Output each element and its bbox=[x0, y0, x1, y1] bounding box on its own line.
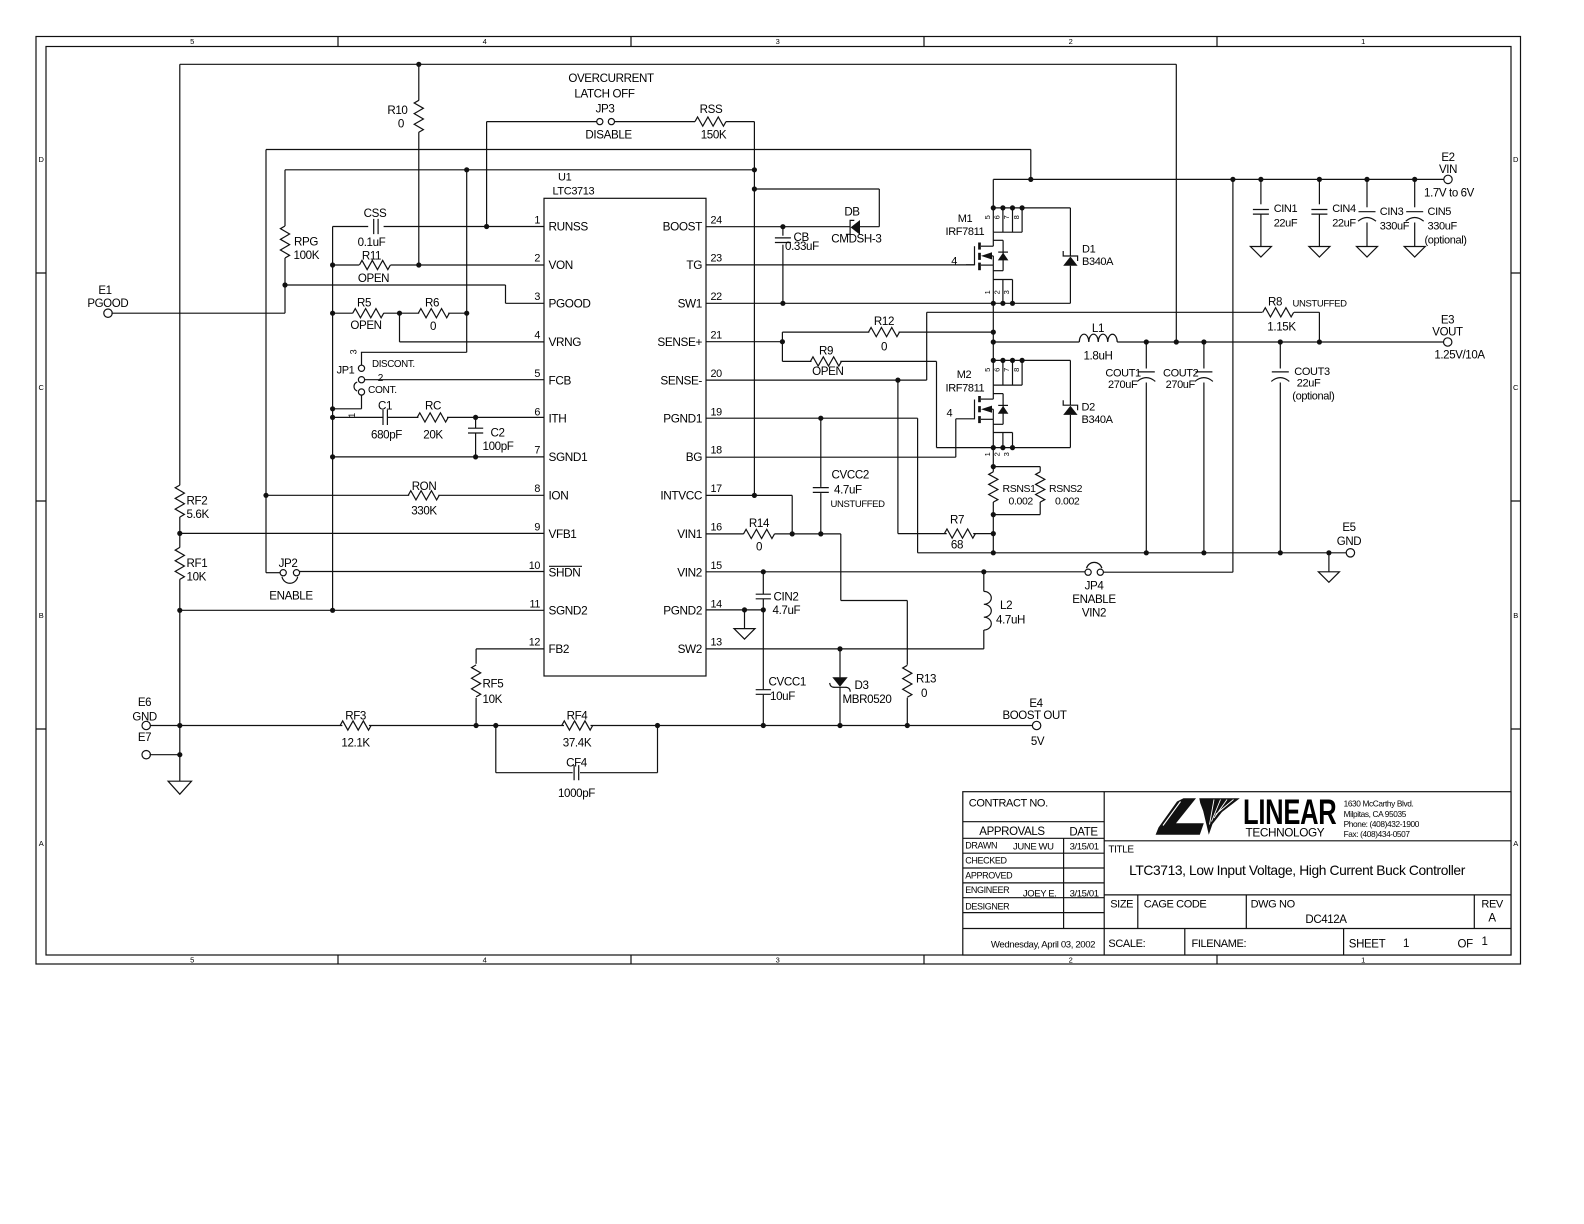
svg-text:CIN2: CIN2 bbox=[774, 590, 799, 603]
wire ION-JP2 column bbox=[265, 150, 267, 573]
svg-text:680pF: 680pF bbox=[371, 429, 402, 442]
ground symbol E5 bbox=[1328, 553, 1330, 572]
svg-text:R5: R5 bbox=[357, 297, 371, 310]
title block bbox=[963, 792, 1511, 955]
svg-text:4: 4 bbox=[947, 408, 953, 420]
svg-text:3: 3 bbox=[1002, 452, 1011, 456]
svg-text:Milpitas, CA 95035: Milpitas, CA 95035 bbox=[1344, 809, 1407, 819]
svg-text:3/15/01: 3/15/01 bbox=[1070, 888, 1099, 899]
svg-text:R7: R7 bbox=[950, 514, 964, 527]
svg-text:13: 13 bbox=[711, 637, 723, 649]
svg-text:OPEN: OPEN bbox=[812, 365, 843, 378]
svg-text:JP1: JP1 bbox=[337, 365, 355, 377]
wire INTVCC to R6-JP1 column bbox=[466, 170, 468, 313]
svg-text:0.1uF: 0.1uF bbox=[358, 236, 386, 249]
svg-text:CVCC1: CVCC1 bbox=[769, 676, 806, 689]
svg-text:5: 5 bbox=[534, 368, 540, 380]
resistor R8 UNSTUFFED bbox=[927, 311, 1263, 313]
svg-text:4.7uF: 4.7uF bbox=[773, 604, 801, 617]
svg-text:270uF: 270uF bbox=[1108, 379, 1138, 391]
svg-text:TG: TG bbox=[686, 258, 702, 272]
svg-text:L1: L1 bbox=[1092, 322, 1104, 335]
svg-text:1: 1 bbox=[983, 452, 992, 456]
wire SW1 pin22 rail bbox=[706, 302, 1070, 304]
svg-text:8: 8 bbox=[1012, 368, 1021, 372]
wire VRNG link bbox=[399, 313, 401, 342]
svg-text:18: 18 bbox=[711, 445, 723, 457]
svg-text:0.002: 0.002 bbox=[1055, 495, 1080, 507]
svg-text:20: 20 bbox=[711, 368, 723, 380]
svg-text:(optional): (optional) bbox=[1292, 390, 1334, 402]
resistor RF2 bbox=[175, 485, 184, 517]
svg-text:0: 0 bbox=[398, 118, 404, 131]
svg-text:6: 6 bbox=[993, 368, 1002, 372]
node E3 VOUT bbox=[1444, 338, 1452, 346]
capacitor CVCC1 10uF bbox=[762, 610, 764, 689]
svg-text:JP4: JP4 bbox=[1085, 579, 1105, 592]
svg-text:330K: 330K bbox=[411, 505, 437, 518]
svg-text:OPEN: OPEN bbox=[350, 319, 381, 332]
svg-text:2: 2 bbox=[1069, 37, 1073, 46]
svg-text:RSS: RSS bbox=[700, 103, 723, 116]
svg-text:VIN: VIN bbox=[1439, 164, 1457, 176]
capacitor CIN2 4.7uF bbox=[762, 572, 764, 594]
svg-text:UNSTUFFED: UNSTUFFED bbox=[831, 499, 886, 510]
capacitor CB bbox=[782, 227, 784, 236]
svg-text:4.7uH: 4.7uH bbox=[996, 614, 1025, 627]
svg-text:8: 8 bbox=[1012, 215, 1021, 219]
svg-text:SHEET: SHEET bbox=[1349, 938, 1386, 950]
wire JP1 pin3 link bbox=[466, 313, 468, 352]
svg-text:SW2: SW2 bbox=[678, 642, 702, 656]
wire VIN2 pin15 line bbox=[706, 571, 1085, 573]
transistor M1 body bbox=[992, 232, 994, 246]
inductor L2 4.7uH bbox=[983, 572, 985, 592]
resistor R12 bbox=[782, 331, 869, 333]
wire RSNS bottom column bbox=[992, 515, 994, 553]
svg-text:0: 0 bbox=[430, 320, 436, 333]
svg-text:1.7V to 6V: 1.7V to 6V bbox=[1424, 188, 1475, 200]
capacitor C1 bbox=[333, 416, 383, 418]
svg-text:RF1: RF1 bbox=[187, 557, 208, 570]
wire JP2 to SHDN pin10 bbox=[299, 571, 544, 573]
wire SW node column bbox=[992, 303, 994, 360]
capacitor CIN1 22uF bbox=[1260, 179, 1262, 204]
svg-text:24: 24 bbox=[711, 214, 723, 226]
svg-text:CONTRACT NO.: CONTRACT NO. bbox=[969, 798, 1048, 810]
svg-text:RF5: RF5 bbox=[483, 677, 504, 690]
wire SW2 pin13 line bbox=[706, 648, 984, 650]
svg-text:UNSTUFFED: UNSTUFFED bbox=[1293, 298, 1348, 309]
svg-text:ITH: ITH bbox=[549, 412, 567, 426]
svg-text:CIN3: CIN3 bbox=[1380, 206, 1404, 218]
svg-text:6: 6 bbox=[993, 215, 1002, 219]
wire INTVCC jog to R13 bbox=[840, 534, 842, 601]
svg-text:R14: R14 bbox=[749, 517, 770, 530]
diode D1 B340A bbox=[1069, 208, 1071, 256]
resistor R6 bbox=[448, 312, 467, 314]
svg-text:SIZE: SIZE bbox=[1110, 898, 1133, 910]
svg-text:R8: R8 bbox=[1268, 295, 1282, 308]
svg-text:RSNS2: RSNS2 bbox=[1049, 483, 1083, 495]
svg-text:E2: E2 bbox=[1441, 152, 1454, 164]
transistor M2 body diode bbox=[1002, 394, 1004, 425]
svg-text:ENGINEER: ENGINEER bbox=[965, 885, 1010, 895]
svg-text:RF2: RF2 bbox=[187, 495, 208, 508]
svg-text:DISCONT.: DISCONT. bbox=[372, 359, 415, 370]
jumper JP1 bbox=[358, 365, 364, 371]
svg-text:17: 17 bbox=[711, 483, 723, 495]
svg-text:APPROVED: APPROVED bbox=[965, 870, 1013, 880]
wire SENSE- riser bbox=[926, 312, 928, 380]
svg-text:22uF: 22uF bbox=[1297, 377, 1321, 389]
svg-text:0: 0 bbox=[881, 340, 887, 353]
svg-text:GND: GND bbox=[1337, 536, 1361, 548]
svg-text:SENSE+: SENSE+ bbox=[657, 335, 702, 349]
svg-text:U1: U1 bbox=[558, 172, 572, 184]
svg-text:SHDN: SHDN bbox=[549, 565, 581, 579]
svg-text:E6: E6 bbox=[138, 697, 151, 709]
svg-text:3/15/01: 3/15/01 bbox=[1070, 841, 1099, 852]
svg-text:RC: RC bbox=[425, 399, 441, 412]
resistor R9 bbox=[782, 360, 811, 362]
svg-text:R11: R11 bbox=[362, 250, 381, 263]
wire JP1 pin1 link bbox=[361, 395, 363, 409]
svg-text:CAGE CODE: CAGE CODE bbox=[1144, 898, 1207, 910]
svg-text:330uF: 330uF bbox=[1428, 220, 1458, 232]
svg-text:VRNG: VRNG bbox=[549, 335, 582, 349]
wire PGOOD link bbox=[285, 284, 506, 286]
svg-text:D2: D2 bbox=[1082, 402, 1096, 414]
jumper JP4 bbox=[1085, 569, 1091, 575]
wire JP4 to VIN riser bbox=[1103, 571, 1233, 573]
svg-text:DRAWN: DRAWN bbox=[965, 840, 997, 850]
svg-text:1: 1 bbox=[1361, 37, 1365, 46]
svg-text:5: 5 bbox=[190, 37, 194, 46]
wire INTVCC pull-up rail bbox=[285, 169, 754, 171]
svg-text:1.25V/10A: 1.25V/10A bbox=[1434, 350, 1485, 362]
svg-text:JUNE WU: JUNE WU bbox=[1013, 841, 1054, 852]
ground symbol E6/E7 bbox=[179, 726, 181, 782]
svg-text:DATE: DATE bbox=[1069, 826, 1098, 838]
wire JP1 pin2 to FCB bbox=[365, 379, 544, 381]
svg-text:OVERCURRENT: OVERCURRENT bbox=[568, 72, 654, 85]
wire BG pin18 to M2 gate bbox=[706, 456, 956, 458]
svg-text:11: 11 bbox=[530, 598, 541, 610]
svg-text:R9: R9 bbox=[819, 345, 833, 358]
resistor R13 0 bbox=[906, 601, 908, 665]
svg-text:LTC3713: LTC3713 bbox=[553, 186, 595, 198]
wire FB2 to RF5 bbox=[476, 648, 544, 650]
svg-text:100K: 100K bbox=[294, 249, 320, 262]
svg-text:16: 16 bbox=[711, 522, 723, 534]
svg-text:SGND1: SGND1 bbox=[549, 450, 588, 464]
svg-text:C2: C2 bbox=[491, 427, 505, 440]
svg-text:PGND1: PGND1 bbox=[663, 412, 702, 426]
node E2 VIN bbox=[1444, 175, 1452, 183]
wire R9 to M2 source bbox=[936, 361, 938, 447]
svg-text:1630 McCarthy Blvd.: 1630 McCarthy Blvd. bbox=[1344, 799, 1414, 809]
wire VFB1 line pin9 bbox=[180, 532, 544, 534]
svg-text:5: 5 bbox=[190, 956, 194, 965]
svg-text:14: 14 bbox=[711, 598, 723, 610]
wire BOOST-DB top loop bbox=[754, 188, 879, 190]
resistor R7 68 bbox=[898, 533, 947, 535]
wire DB right drop bbox=[878, 189, 880, 227]
svg-text:0.33uF: 0.33uF bbox=[785, 240, 819, 253]
svg-text:0.002: 0.002 bbox=[1009, 495, 1034, 507]
svg-text:A: A bbox=[1488, 913, 1496, 925]
svg-text:CHECKED: CHECKED bbox=[965, 855, 1007, 865]
svg-text:1: 1 bbox=[534, 214, 540, 226]
wire JP3 right drop / INTVCC column bbox=[753, 122, 755, 496]
resistor R11 bbox=[333, 264, 360, 266]
svg-text:VIN2: VIN2 bbox=[1082, 607, 1106, 620]
svg-text:5V: 5V bbox=[1031, 736, 1045, 748]
svg-text:4: 4 bbox=[534, 330, 540, 342]
svg-text:VIN1: VIN1 bbox=[677, 527, 702, 541]
svg-text:BOOST: BOOST bbox=[663, 220, 703, 234]
wire VIN rail bbox=[993, 178, 1444, 180]
svg-text:B: B bbox=[39, 611, 44, 620]
capacitor CIN3 330uF bbox=[1366, 179, 1368, 207]
svg-text:7: 7 bbox=[534, 445, 540, 457]
svg-text:5: 5 bbox=[983, 215, 992, 219]
transistor M2 drain pins 5-8 bbox=[993, 359, 1070, 361]
svg-text:ENABLE: ENABLE bbox=[269, 590, 313, 603]
svg-text:FB2: FB2 bbox=[549, 642, 570, 656]
svg-text:PGND2: PGND2 bbox=[663, 604, 702, 618]
svg-text:RUNSS: RUNSS bbox=[549, 220, 589, 234]
inductor L1 1.8uH bbox=[993, 341, 1079, 343]
resistor RF3 bbox=[340, 721, 371, 730]
wire M2 source to RSNS bbox=[992, 448, 994, 467]
diode DB CMDSH-3 bbox=[851, 220, 860, 235]
svg-text:A: A bbox=[1513, 839, 1518, 848]
svg-text:E1: E1 bbox=[98, 285, 111, 297]
transistor M1 source pins 1-3 bbox=[993, 279, 1012, 281]
transistor M2 body bbox=[992, 385, 994, 399]
svg-text:3: 3 bbox=[776, 37, 780, 46]
svg-text:2: 2 bbox=[993, 290, 1002, 294]
svg-text:7: 7 bbox=[1002, 215, 1011, 219]
resistor RSNS1 0.002 bbox=[993, 466, 1040, 468]
svg-text:CIN1: CIN1 bbox=[1274, 203, 1298, 215]
svg-text:Phone: (408)432-1900: Phone: (408)432-1900 bbox=[1344, 819, 1420, 829]
svg-text:BOOST OUT: BOOST OUT bbox=[1002, 710, 1066, 722]
svg-text:JOEY E.: JOEY E. bbox=[1023, 888, 1057, 899]
op-amp U1 LTC3713 controller box bbox=[544, 198, 706, 676]
svg-text:4: 4 bbox=[483, 956, 487, 965]
wire SGND2 line pin11 bbox=[180, 609, 544, 611]
svg-text:10: 10 bbox=[529, 560, 541, 572]
resistor RSS bbox=[695, 117, 726, 126]
svg-text:12: 12 bbox=[529, 637, 541, 649]
jumper JP2 bbox=[280, 570, 286, 576]
Linear Technology logo bbox=[1156, 792, 1420, 839]
svg-text:FILENAME:: FILENAME: bbox=[1192, 938, 1247, 950]
svg-text:CIN5: CIN5 bbox=[1428, 206, 1452, 218]
svg-text:B340A: B340A bbox=[1082, 414, 1114, 426]
svg-text:FCB: FCB bbox=[549, 373, 572, 387]
capacitor CIN5 330uF optional bbox=[1414, 179, 1416, 207]
svg-text:TITLE: TITLE bbox=[1108, 845, 1134, 856]
capacitor CVCC2 4.7uF UNSTUFFED bbox=[820, 418, 822, 487]
svg-text:15: 15 bbox=[711, 560, 723, 572]
svg-text:D1: D1 bbox=[1082, 244, 1096, 256]
transistor M1 drain pins 5-8 bbox=[993, 207, 1070, 209]
wire BOOST pin24 line bbox=[706, 226, 850, 228]
svg-text:JP2: JP2 bbox=[279, 557, 298, 570]
svg-text:CIN4: CIN4 bbox=[1332, 203, 1356, 215]
svg-text:VON: VON bbox=[549, 258, 573, 272]
border frame bbox=[36, 37, 1521, 965]
transistor M2 source pins 1-3 bbox=[993, 432, 1012, 434]
svg-text:2: 2 bbox=[993, 452, 1002, 456]
wire SENSE+ riser bbox=[781, 332, 783, 361]
svg-text:RPG: RPG bbox=[294, 236, 318, 249]
svg-text:0: 0 bbox=[921, 687, 927, 700]
wire E7 link bbox=[150, 754, 180, 756]
svg-text:PGOOD: PGOOD bbox=[87, 298, 128, 310]
wire VIN rail to M1 drain bbox=[992, 179, 994, 208]
wire bottom GND-feedback rail bbox=[150, 725, 343, 727]
svg-text:M1: M1 bbox=[958, 213, 973, 225]
svg-text:12.1K: 12.1K bbox=[341, 737, 370, 750]
svg-text:TECHNOLOGY: TECHNOLOGY bbox=[1246, 825, 1325, 839]
resistor RC bbox=[447, 416, 544, 418]
svg-text:E4: E4 bbox=[1029, 698, 1043, 710]
svg-text:OPEN: OPEN bbox=[358, 272, 389, 285]
svg-text:DISABLE: DISABLE bbox=[585, 128, 632, 141]
wire VOUT feedback top rail bbox=[180, 63, 1177, 65]
svg-text:(optional): (optional) bbox=[1425, 235, 1467, 247]
svg-text:SW1: SW1 bbox=[678, 297, 702, 311]
svg-text:CONT.: CONT. bbox=[368, 385, 397, 396]
svg-text:RSNS1: RSNS1 bbox=[1003, 483, 1037, 495]
capacitor CIN4 22uF bbox=[1318, 179, 1320, 204]
svg-text:DC412A: DC412A bbox=[1305, 914, 1347, 926]
wire RPG column bbox=[284, 170, 286, 226]
resistor RF4 bbox=[562, 721, 593, 730]
svg-text:D3: D3 bbox=[855, 679, 869, 692]
svg-text:1.15K: 1.15K bbox=[1267, 320, 1296, 333]
svg-text:IRF7811: IRF7811 bbox=[946, 226, 985, 238]
svg-text:3: 3 bbox=[776, 956, 780, 965]
svg-text:R10: R10 bbox=[387, 104, 407, 117]
wire PGND2 pin14 line bbox=[706, 609, 763, 611]
svg-text:37.4K: 37.4K bbox=[563, 737, 592, 750]
svg-text:OF: OF bbox=[1458, 938, 1474, 950]
wire VIN link drop bbox=[1030, 150, 1032, 180]
svg-text:10uF: 10uF bbox=[770, 690, 795, 703]
svg-text:4: 4 bbox=[483, 37, 487, 46]
capacitor CF4 bbox=[495, 726, 497, 773]
svg-text:100pF: 100pF bbox=[483, 440, 514, 453]
transistor M1 body diode bbox=[1002, 240, 1004, 270]
svg-text:B: B bbox=[1513, 611, 1518, 620]
svg-text:E3: E3 bbox=[1441, 314, 1454, 326]
wire INTVCC pin17 link bbox=[706, 494, 792, 496]
svg-text:REV: REV bbox=[1481, 898, 1504, 910]
resistor R10 bbox=[418, 64, 420, 100]
svg-text:ENABLE: ENABLE bbox=[1072, 593, 1116, 606]
svg-text:6: 6 bbox=[534, 406, 540, 418]
capacitor COUT2 270uF bbox=[1201, 339, 1206, 344]
wire PGND1 pin19 drop bbox=[706, 417, 918, 419]
node E4 BOOST OUT bbox=[1032, 721, 1040, 729]
svg-text:B340A: B340A bbox=[1082, 256, 1114, 268]
svg-text:1: 1 bbox=[983, 290, 992, 294]
svg-text:A: A bbox=[39, 839, 44, 848]
wire VFB divider column bbox=[179, 64, 181, 485]
svg-text:SCALE:: SCALE: bbox=[1108, 938, 1145, 950]
svg-text:1: 1 bbox=[1403, 938, 1409, 950]
ground symbol PGND2 bbox=[744, 610, 746, 629]
svg-text:LATCH OFF: LATCH OFF bbox=[574, 87, 634, 100]
svg-text:10K: 10K bbox=[187, 570, 207, 583]
svg-text:22uF: 22uF bbox=[1274, 217, 1298, 229]
node E7 bbox=[142, 751, 150, 759]
svg-text:MBR0520: MBR0520 bbox=[843, 693, 892, 706]
wire SENSE- pin20 bbox=[706, 379, 927, 381]
wire VIN link rail bbox=[266, 149, 1031, 151]
svg-text:270uF: 270uF bbox=[1166, 379, 1196, 391]
svg-text:2: 2 bbox=[534, 253, 540, 265]
svg-text:1: 1 bbox=[1361, 956, 1365, 965]
svg-text:1: 1 bbox=[1481, 936, 1487, 948]
svg-text:DB: DB bbox=[844, 206, 860, 219]
wire M2 source rail bbox=[937, 447, 1071, 449]
svg-text:CMDSH-3: CMDSH-3 bbox=[831, 232, 881, 245]
svg-text:RF4: RF4 bbox=[567, 710, 589, 723]
wire VIN1 pin16 line bbox=[706, 533, 744, 535]
resistor RF1 bbox=[175, 547, 184, 579]
svg-text:9: 9 bbox=[534, 522, 540, 534]
svg-text:2: 2 bbox=[378, 373, 384, 384]
svg-text:4.7uF: 4.7uF bbox=[834, 483, 862, 496]
resistor RSNS2 0.002 bbox=[1036, 472, 1045, 502]
svg-text:BG: BG bbox=[686, 450, 702, 464]
svg-text:7: 7 bbox=[1002, 368, 1011, 372]
resistor RON bbox=[266, 494, 409, 496]
svg-text:VOUT: VOUT bbox=[1432, 326, 1463, 338]
svg-text:8: 8 bbox=[534, 483, 540, 495]
svg-text:CSS: CSS bbox=[364, 207, 387, 220]
svg-text:LTC3713, Low Input Voltage, Hi: LTC3713, Low Input Voltage, High Current… bbox=[1129, 863, 1466, 878]
capacitor C2 bbox=[475, 417, 477, 428]
svg-text:21: 21 bbox=[711, 330, 723, 342]
svg-text:SGND2: SGND2 bbox=[549, 604, 588, 618]
svg-text:RF3: RF3 bbox=[345, 710, 366, 723]
svg-text:1.8uH: 1.8uH bbox=[1083, 350, 1112, 363]
svg-text:SENSE-: SENSE- bbox=[660, 373, 702, 387]
svg-text:ION: ION bbox=[549, 489, 569, 503]
svg-text:IRF7811: IRF7811 bbox=[946, 383, 985, 395]
wire JP3 left drop bbox=[486, 122, 488, 227]
wire E1 to PGOOD net bbox=[111, 312, 285, 314]
wire power ground rail bbox=[918, 552, 1347, 554]
jumper JP3 bbox=[597, 119, 603, 125]
wire SGND1 line pin7 bbox=[333, 456, 544, 458]
svg-text:3: 3 bbox=[1002, 290, 1011, 294]
node E5 GND bbox=[1346, 549, 1354, 557]
svg-text:R13: R13 bbox=[916, 672, 936, 685]
svg-text:5: 5 bbox=[983, 368, 992, 372]
svg-text:PGOOD: PGOOD bbox=[549, 297, 591, 311]
svg-text:Fax: (408)434-0507: Fax: (408)434-0507 bbox=[1344, 829, 1411, 839]
capacitor CSS bbox=[333, 226, 369, 228]
